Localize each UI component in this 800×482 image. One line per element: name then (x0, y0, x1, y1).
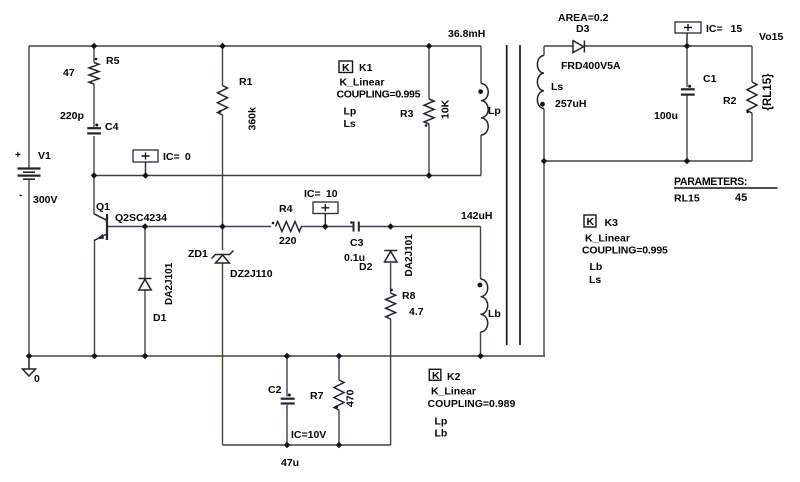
resistor R2 (747, 82, 757, 113)
svg-text:470: 470 (345, 389, 357, 407)
svg-text:142uH: 142uH (461, 210, 493, 222)
wire Lp bottom lead (480, 135, 482, 176)
svg-text:D3: D3 (576, 23, 590, 35)
wire R2 top lead (751, 46, 753, 82)
resistor R7 (334, 380, 344, 410)
svg-text:Ls: Ls (589, 274, 601, 286)
svg-text:{RL15}: {RL15} (762, 73, 774, 111)
wire ZD1 to subcircuit bottom rail (222, 264, 224, 446)
junction ground rail left (26, 353, 33, 360)
wire secondary top rail right of D3 (585, 45, 752, 47)
wire base rail to ZD1 (222, 227, 224, 251)
svg-text:Ls: Ls (551, 81, 563, 93)
svg-text:Lp: Lp (488, 105, 501, 117)
svg-text:36.8mH: 36.8mH (448, 28, 485, 40)
resistor R4 (276, 222, 302, 232)
junction C3-D2 node (387, 223, 394, 230)
capacitor C4 (87, 127, 101, 129)
svg-text:K: K (342, 62, 350, 74)
resistor R8 (386, 293, 396, 319)
svg-text:COUPLING=0.995: COUPLING=0.995 (337, 89, 421, 101)
svg-text:47: 47 (63, 67, 75, 79)
svg-text:FRD400V5A: FRD400V5A (561, 60, 621, 72)
wire R7 bottom lead (338, 410, 340, 445)
svg-text:Q1: Q1 (96, 201, 110, 213)
svg-text:K_Linear: K_Linear (431, 386, 476, 398)
svg-text:R4: R4 (279, 203, 293, 215)
svg-text:300V: 300V (33, 194, 58, 206)
svg-text:C2: C2 (268, 384, 282, 396)
svg-text:K_Linear: K_Linear (585, 233, 630, 245)
junction R7 top (336, 353, 343, 360)
wire R5 column top lead (93, 46, 95, 63)
svg-text:R2: R2 (723, 95, 737, 107)
svg-text:47u: 47u (281, 457, 299, 469)
zener ZD1 (212, 251, 234, 264)
ground (28, 356, 30, 369)
svg-text:R5: R5 (106, 55, 120, 67)
svg-text:IC= 15: IC= 15 (706, 23, 742, 35)
junction collector node (91, 172, 98, 179)
svg-text:Lb: Lb (488, 308, 501, 320)
coupling K3 (582, 215, 668, 286)
wire R3 top lead (428, 46, 430, 99)
junction Ls bottom (541, 158, 548, 165)
svg-text:360k: 360k (247, 107, 259, 131)
capacitor C3 (354, 222, 359, 232)
diode D1 (139, 279, 152, 291)
IC marker IC=15 (675, 22, 701, 33)
wire secondary bottom rail (544, 160, 752, 162)
wire R1 bottom lead to base rail (222, 115, 224, 227)
svg-text:+: + (15, 150, 21, 161)
wire C4 to collector node (93, 136, 95, 176)
inductor Ls (537, 56, 544, 109)
svg-text:IC= 10: IC= 10 (304, 188, 338, 200)
wire R3 bottom lead (428, 124, 430, 176)
svg-text:COUPLING=0.995: COUPLING=0.995 (582, 245, 668, 257)
svg-text:R7: R7 (310, 390, 324, 402)
svg-text:DA2J101: DA2J101 (164, 262, 175, 305)
svg-text:220p: 220p (60, 110, 84, 122)
wire D1 top lead (144, 227, 146, 279)
svg-text:Lb: Lb (590, 261, 603, 273)
wire C1 bottom lead (686, 95, 688, 161)
svg-text:D2: D2 (359, 261, 373, 273)
inductor Lp (481, 84, 488, 136)
diode D3 (573, 41, 584, 53)
svg-text:IC= 0: IC= 0 (163, 151, 191, 163)
junction R7 bottom (336, 442, 343, 449)
diode D2 (384, 251, 397, 263)
junction R3 bottom rail (426, 172, 433, 179)
svg-text:IC=10V: IC=10V (291, 429, 326, 441)
wire C2 top lead (286, 356, 288, 397)
svg-text:Lp: Lp (435, 416, 448, 428)
svg-text:Lb: Lb (435, 428, 448, 440)
svg-text:4.7: 4.7 (409, 306, 424, 318)
wire C1 top lead (686, 46, 688, 87)
wire Lb top lead (480, 227, 482, 280)
svg-text:K3: K3 (605, 217, 619, 229)
junction C2 top (284, 353, 291, 360)
wire Ls return to bottom rail (543, 161, 545, 356)
junction emitter ground (91, 353, 98, 360)
svg-text:10K: 10K (440, 99, 452, 119)
svg-text:K_Linear: K_Linear (340, 77, 385, 89)
wire base rail y=226.5 (107, 226, 272, 228)
resistor R3 (424, 99, 434, 124)
IC marker IC=10 (313, 202, 338, 214)
resistor R1 (218, 86, 228, 116)
svg-text:ZD1: ZD1 (188, 248, 208, 260)
svg-text:K: K (432, 370, 440, 382)
svg-text:R1: R1 (239, 76, 253, 88)
wire subcircuit bottom rail (223, 444, 391, 446)
wire R2 bottom lead (751, 113, 753, 161)
svg-text:Ls: Ls (344, 118, 356, 130)
wire secondary top rail left of D3 (544, 45, 573, 47)
wire R8 bottom to subcircuit rail (390, 319, 392, 445)
svg-text:C1: C1 (703, 73, 717, 85)
wire D2 bottom to R8 (390, 263, 392, 293)
svg-text:Q2SC4234: Q2SC4234 (115, 212, 167, 224)
wire Lp top lead (480, 46, 482, 84)
wire C2 bottom lead (286, 405, 288, 445)
junction IC=10 tap (322, 223, 329, 230)
svg-text:C4: C4 (105, 121, 119, 133)
junction Vo15 C1 top (684, 43, 691, 50)
wire Lb bottom lead (480, 332, 482, 356)
svg-text:C3: C3 (350, 237, 364, 249)
svg-text:D1: D1 (153, 312, 167, 324)
wire left rail lower (V1 bottom lead) (28, 179, 30, 356)
svg-text:RL15: RL15 (674, 193, 700, 205)
svg-text:R8: R8 (402, 290, 416, 302)
svg-text:K2: K2 (447, 371, 461, 383)
svg-text:R3: R3 (400, 108, 414, 120)
wire R5 to C4 (93, 84, 95, 128)
transistor Q1 (94, 214, 107, 241)
svg-text:PARAMETERS:: PARAMETERS: (674, 176, 747, 188)
coupling K2 (428, 369, 516, 439)
wire Ls bottom lead (543, 109, 545, 162)
wire primary mid rail y=175 (94, 175, 481, 177)
wire D1 bottom lead (144, 290, 146, 356)
capacitor C1 (681, 88, 695, 90)
junction D1 ground (142, 353, 149, 360)
wire R7 top lead (338, 356, 340, 380)
wire top rail (29, 45, 481, 47)
parameters table (674, 176, 778, 205)
wire left rail upper (V1 top lead) (28, 46, 30, 168)
wire D2 node to Lb top (391, 226, 481, 228)
junction ZD1 base rail (219, 223, 226, 230)
junction R5 top rail (91, 43, 98, 50)
svg-text:0: 0 (34, 373, 40, 385)
wire base rail R4 to C3 (301, 226, 353, 228)
svg-text:DA2J101: DA2J101 (404, 234, 415, 277)
svg-text:V1: V1 (38, 150, 51, 162)
inductor Lb (481, 279, 488, 332)
svg-text:Lp: Lp (344, 106, 357, 118)
junction D1 base rail (142, 223, 149, 230)
resistor R5 (89, 63, 99, 85)
IC marker IC=0 (133, 150, 158, 162)
svg-text:K1: K1 (359, 62, 373, 74)
junction C1 bottom (684, 158, 691, 165)
junction IC=0 tap (142, 172, 149, 179)
battery V1 (18, 169, 41, 180)
capacitor C2 (281, 398, 295, 400)
transformer core (507, 45, 520, 345)
junction C2 bottom (284, 442, 291, 449)
svg-text:COUPLING=0.989: COUPLING=0.989 (428, 398, 516, 410)
wire Ls top lead (543, 46, 545, 56)
svg-text:220: 220 (279, 235, 297, 247)
junction R3 top rail (426, 43, 433, 50)
svg-text:45: 45 (735, 192, 747, 204)
wire C3 to D2 node (360, 226, 391, 228)
junction R1 top rail (219, 43, 226, 50)
junction Lb bottom (477, 353, 484, 360)
wire bottom rail (29, 355, 545, 357)
wire Q1 emitter to bottom rail (94, 240, 96, 356)
svg-text:100u: 100u (654, 110, 678, 122)
svg-text:K: K (587, 216, 595, 228)
wire R1 column top lead (222, 46, 224, 86)
svg-text:-: - (19, 190, 22, 201)
svg-text:Vo15: Vo15 (759, 31, 783, 43)
wire collector node to Q1 (93, 176, 95, 215)
svg-text:257uH: 257uH (555, 98, 587, 110)
coupling K1 (337, 61, 421, 130)
svg-text:DZ2J110: DZ2J110 (230, 268, 273, 280)
